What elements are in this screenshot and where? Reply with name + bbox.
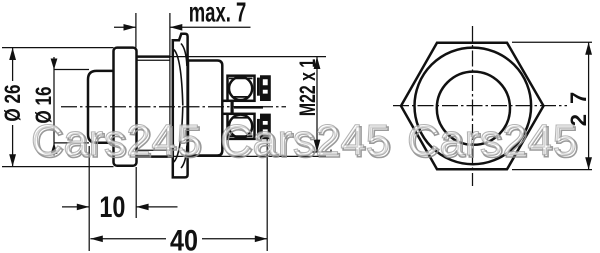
arrowhead Ø16 bottom (up, outside)	[51, 143, 58, 154]
27 extension line top	[512, 41, 592, 43]
arrowhead 27 top (up)	[585, 42, 592, 54]
40 dimension line left segment	[90, 238, 166, 240]
front view centerline horizontal	[393, 105, 567, 107]
arrowhead 40 left (points left)	[90, 236, 102, 243]
svg-text:Cars245: Cars245	[407, 116, 578, 165]
27 dimension line	[588, 42, 590, 169]
hex nut (side view)	[173, 34, 188, 178]
10 dimension line left tail	[62, 206, 89, 208]
screw terminal upper: plate	[228, 76, 255, 101]
max.7 extension line left	[135, 13, 137, 48]
spade terminal lower B-bracket	[260, 114, 271, 140]
M22x1 lower extension segment with hook	[312, 150, 331, 153]
arrowhead M22x1 bottom (down)	[314, 140, 321, 152]
max.7 dimension line left part	[114, 26, 136, 28]
button cap (side view, Ø16)	[88, 71, 114, 143]
max.7 dimension line right part	[170, 26, 251, 28]
svg-text:M22 x 1: M22 x 1	[297, 59, 321, 116]
spade terminal upper small bar	[257, 78, 260, 96]
svg-text:max. 7: max. 7	[189, 0, 247, 28]
rear housing (side view)	[188, 61, 222, 156]
terminal middle bar between plates	[231, 101, 234, 114]
40 dimension line right segment	[202, 238, 267, 240]
screw terminal lower: chord bottom	[229, 135, 253, 137]
mounting flange (side view, Ø26)	[114, 48, 137, 166]
M22 thread minor / extension line bottom	[137, 149, 171, 151]
screw terminal lower: chord top	[233, 117, 249, 119]
10-dim extension line left (cap face)	[88, 146, 90, 251]
M22 thread OD bottom extension line right	[172, 155, 327, 157]
arrowhead M22x1 top (up)	[314, 57, 321, 69]
arrowhead 27 bottom (down)	[585, 157, 592, 169]
front view outer circle Ø26	[415, 48, 532, 165]
spade terminal upper B-bracket	[260, 75, 271, 101]
Ø16 extension line bottom	[54, 142, 89, 144]
M22 thread minor diameter top line	[137, 59, 171, 61]
screw terminal upper: clamp plate chord top	[229, 77, 253, 79]
arrowhead max7 right (points left)	[170, 24, 182, 31]
Ø16 arrow tails outside	[53, 57, 55, 156]
arrowhead max7 left (points right)	[124, 24, 136, 31]
screw terminal lower: screw head circle	[229, 115, 252, 138]
Ø26 dimension line upper segment	[12, 48, 14, 81]
thread section M22 outer diameter top line	[137, 55, 171, 58]
svg-text:Cars245: Cars245	[31, 116, 202, 165]
svg-text:40: 40	[170, 223, 198, 253]
arrowhead 10 right (points left)	[136, 204, 148, 211]
svg-text:Cars245: Cars245	[220, 116, 391, 165]
M22x1 dimension line	[316, 57, 318, 152]
arrowhead Ø16 top (down, outside)	[51, 59, 58, 70]
screw terminal upper: chord bottom	[233, 96, 249, 98]
arrowhead 10 left (points right)	[77, 204, 89, 211]
screw terminal lower: plate	[228, 114, 255, 139]
watermark Cars245 x3	[31, 116, 579, 167]
10 dimension line right tail	[136, 206, 177, 208]
terminal plates connector to housing lower	[222, 113, 227, 116]
Ø26 extension line top	[2, 47, 114, 49]
front view inner circle Ø16	[437, 72, 510, 145]
nut chamfer arc upper center	[174, 50, 183, 106]
screw terminal upper: screw head circle	[229, 77, 252, 100]
nut chamfer arc lower right	[181, 146, 187, 169]
front view centerline vertical	[472, 26, 474, 186]
Ø26 extension line bottom	[2, 166, 114, 168]
terminal link bar right	[234, 106, 263, 109]
nut chamfer arc upper right	[181, 44, 187, 67]
Ø16 extension line top	[54, 69, 89, 71]
nut chamfer arc lower center	[174, 107, 183, 163]
terminal plates connector to housing upper	[222, 100, 227, 103]
spade terminal lower small bar	[257, 119, 260, 137]
arrowhead Ø26 bottom (down)	[9, 154, 16, 166]
arrowhead 40 right (points right)	[255, 236, 267, 243]
max.7 extension line right	[169, 13, 171, 150]
hexagon front view	[401, 43, 544, 170]
10-dim extension line right (flange face)	[135, 167, 137, 218]
arrowhead Ø26 top (up)	[9, 48, 16, 60]
Ø16 dimension line	[53, 70, 55, 143]
27 extension line bottom	[512, 169, 592, 171]
svg-text:10: 10	[99, 190, 125, 223]
40-dim extension line right (terminal tip)	[266, 138, 268, 251]
thread section M22 outer diameter bottom line	[137, 155, 172, 158]
centerline side view	[61, 106, 286, 108]
svg-text:Ø 26: Ø 26	[1, 84, 26, 121]
M22 thread extension line top (to M22x1 dim)	[170, 56, 326, 58]
Ø26 dimension line lower segment	[12, 125, 14, 167]
